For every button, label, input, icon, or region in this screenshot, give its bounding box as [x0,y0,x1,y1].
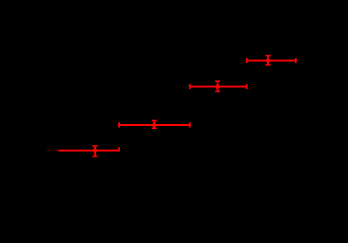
point 2 [119,121,190,129]
point 3 [190,81,247,91]
point 4 [247,56,296,65]
point 1 [47,146,119,156]
